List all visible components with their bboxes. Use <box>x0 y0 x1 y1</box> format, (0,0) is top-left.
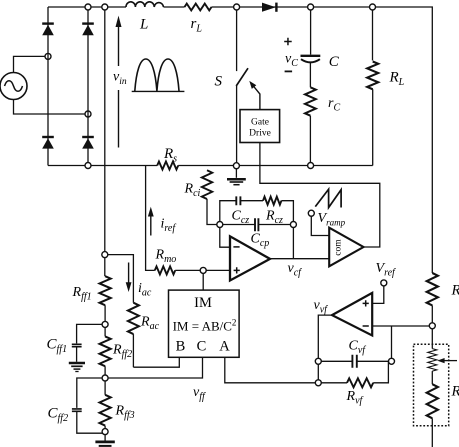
node divider mid1 <box>102 321 108 327</box>
svg-text:vC: vC <box>285 52 298 70</box>
svg-text:A: A <box>219 339 230 355</box>
wire plus input <box>206 269 230 271</box>
ac source V1 <box>0 56 85 114</box>
wire top rail <box>48 7 432 273</box>
wire Rmo vertical <box>146 166 155 271</box>
diode D1 bridge upper-left <box>42 24 54 36</box>
svg-text:rC: rC <box>328 96 340 114</box>
svg-text:Rvf: Rvf <box>346 389 364 407</box>
wire Vref input <box>372 286 384 303</box>
resistor Rs sense <box>157 162 178 170</box>
svg-text:RL: RL <box>389 70 405 89</box>
resistor R upper <box>427 273 438 305</box>
node AC bottom on bridge <box>85 111 91 117</box>
sawtooth Vramp <box>315 189 341 207</box>
wire vvf output <box>318 315 332 380</box>
wire node to pot <box>431 329 433 349</box>
node sense divider top <box>102 252 108 258</box>
wire IM pin C <box>108 357 203 378</box>
resistor RL load <box>367 10 378 166</box>
switch S <box>236 10 248 166</box>
svg-text:Vref: Vref <box>376 261 397 279</box>
svg-text:S: S <box>215 74 223 90</box>
node top rail sense tap <box>102 4 108 10</box>
wire vcf <box>270 258 329 260</box>
node top rail RL <box>370 4 376 10</box>
svg-text:Rcz: Rcz <box>265 209 283 227</box>
node bottom rail cap <box>308 163 314 169</box>
wire R to node <box>431 305 433 322</box>
wire Rcz down <box>281 201 293 222</box>
svg-text:Cff1: Cff1 <box>47 337 68 356</box>
node top rail switch <box>234 4 240 10</box>
capacitor Cff2 <box>72 378 103 433</box>
svg-text:IM = AB/C2: IM = AB/C2 <box>173 318 237 334</box>
arrow gate to switch <box>249 81 260 110</box>
diode D4 bridge lower-right <box>82 137 94 149</box>
capacitor Cff1 <box>72 324 102 361</box>
resistor Rvf <box>321 361 388 387</box>
resistor rC <box>305 87 316 115</box>
resistor R in box <box>427 371 438 447</box>
svg-text:Ccz: Ccz <box>232 209 250 227</box>
svg-text:Ccp: Ccp <box>251 232 270 250</box>
svg-text:iref: iref <box>161 217 177 235</box>
diode D2 bridge upper-right <box>82 24 94 36</box>
diode D3 bridge lower-left <box>42 137 54 149</box>
waveform rectified sine <box>132 59 185 91</box>
wire Vramp input <box>311 216 329 235</box>
ground main <box>227 169 246 185</box>
capacitor Ccp <box>255 218 258 231</box>
svg-text:C: C <box>197 339 207 355</box>
svg-text:vvf: vvf <box>314 298 329 316</box>
node bottom rail ground <box>233 163 239 169</box>
svg-text:IM: IM <box>194 295 212 311</box>
label plus vC <box>284 38 292 46</box>
svg-text:vcf: vcf <box>288 261 303 279</box>
svg-text:Cvf: Cvf <box>349 339 367 357</box>
wire minus input <box>220 228 230 248</box>
arrow pot wiper <box>437 358 457 363</box>
svg-text:Rff2: Rff2 <box>112 343 132 361</box>
svg-text:Drive: Drive <box>249 129 271 139</box>
capacitor Ccz <box>236 196 240 205</box>
svg-text:R: R <box>451 283 459 299</box>
multiplier IM box <box>169 290 240 357</box>
resistor Rff2 <box>100 327 111 375</box>
wire Rac branch <box>108 255 133 303</box>
wire Cvf left <box>321 360 352 362</box>
gate drive box <box>240 110 280 143</box>
resistor Rci <box>202 170 217 224</box>
svg-text:B: B <box>176 339 186 355</box>
resistor Rmo <box>155 266 175 274</box>
node Cvf left <box>315 358 321 364</box>
svg-text:Cff2: Cff2 <box>48 406 69 425</box>
svg-text:R: R <box>451 384 459 400</box>
svg-text:vin: vin <box>113 70 127 88</box>
svg-text:L: L <box>139 17 148 33</box>
node Cvf right <box>389 358 395 364</box>
svg-text:Vramp: Vramp <box>318 211 346 228</box>
node divider bottom <box>102 429 108 435</box>
node bottom rail bridge <box>85 163 91 169</box>
resistor rL <box>185 4 212 11</box>
node top rail cap <box>308 4 314 10</box>
arrow iref <box>148 207 154 236</box>
wire bottom rail <box>48 165 373 167</box>
wire Cvf right <box>357 360 389 362</box>
resistor Rff3 <box>100 381 111 429</box>
svg-text:Rci: Rci <box>184 182 201 200</box>
wire rC bottom <box>309 116 311 166</box>
label minus vC <box>285 70 293 72</box>
svg-text:C: C <box>329 54 340 70</box>
wire Ccp right <box>258 224 290 226</box>
wire Rac bottom <box>132 334 134 367</box>
wire bridge right leg <box>87 7 89 166</box>
ground Rff3 <box>95 435 114 446</box>
arrow iac <box>126 263 132 293</box>
wire Ccp left <box>223 224 255 226</box>
ground Cff1 <box>69 363 85 372</box>
wire IM top pin <box>202 274 204 291</box>
wire bridge left leg <box>47 7 49 166</box>
capacitor Cvf <box>352 355 356 368</box>
node vvf bottom <box>315 380 321 386</box>
resistor Rcz <box>263 197 281 205</box>
op-amp voltage U2 <box>332 293 372 336</box>
op-amp current U1 <box>230 236 270 280</box>
wire Rmo right <box>175 269 200 271</box>
svg-text:vff: vff <box>193 385 206 403</box>
inductor L <box>126 2 163 7</box>
dashed box pot <box>414 344 449 426</box>
svg-text:Rff1: Rff1 <box>72 285 92 303</box>
capacitor C output <box>301 10 321 87</box>
node AC top on bridge <box>45 53 51 59</box>
wire gate signal <box>260 143 380 248</box>
resistor Rff1 <box>100 258 111 322</box>
wire IM pin A <box>225 357 315 383</box>
svg-text:Gate: Gate <box>251 117 269 127</box>
node compensation right <box>290 222 296 228</box>
terminal Vref <box>381 280 387 286</box>
node output divider <box>429 323 435 329</box>
wire minus input voltage <box>372 325 429 327</box>
terminal Vramp <box>308 210 314 216</box>
resistor Rac <box>128 303 139 334</box>
svg-text:com: com <box>334 239 344 256</box>
comparator <box>329 228 363 267</box>
svg-text:Rff3: Rff3 <box>115 404 135 422</box>
wire vin sense line <box>104 10 106 252</box>
svg-text:Rac: Rac <box>140 315 160 333</box>
svg-text:Rs: Rs <box>163 146 177 165</box>
wire Cvf node up <box>391 326 393 358</box>
svg-text:Rmo: Rmo <box>155 248 177 266</box>
diode D5 boost <box>262 3 276 12</box>
node compensation left <box>217 222 223 228</box>
node multiplier output <box>200 267 206 273</box>
svg-text:iac: iac <box>138 281 152 299</box>
potentiometer R <box>428 349 437 372</box>
node divider mid2 <box>102 375 108 381</box>
node top rail bridge <box>85 4 91 10</box>
arrow vin <box>116 16 122 148</box>
wire Ccz branch up <box>220 201 236 222</box>
svg-text:rL: rL <box>191 16 203 35</box>
wire IM pin B <box>133 357 179 367</box>
wire comp to output <box>292 228 294 259</box>
wire Ccz to Rcz <box>240 200 263 202</box>
